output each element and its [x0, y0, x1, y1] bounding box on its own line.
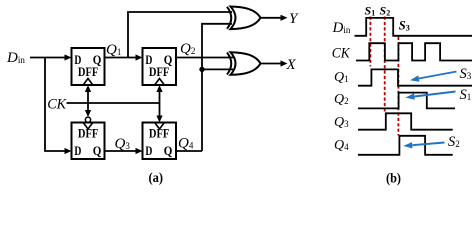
svg-text:DFF: DFF: [78, 65, 99, 79]
wire Din branch down to DFF3: [45, 58, 65, 152]
svg-text:CK: CK: [332, 46, 351, 62]
flip-flop DFF4 (bottom-right) box: [143, 123, 177, 160]
svg-text:Q: Q: [93, 143, 102, 158]
waveform Q2: [358, 93, 455, 109]
xor gate U1 (top): [227, 7, 261, 30]
svg-text:CK: CK: [47, 97, 67, 113]
clock wedge DFF1: [84, 79, 93, 85]
waveform Q4: [358, 136, 453, 155]
wire Q1 riser to top XOR: [128, 12, 232, 58]
inverter bubble DFF3 clock: [85, 117, 90, 122]
svg-text:D: D: [74, 143, 81, 158]
wire clock riser 1 down to DFF3 bubble: [87, 103, 89, 111]
wire Din to DFF1 D input: [30, 57, 65, 59]
clock wedge DFF2: [155, 79, 164, 85]
waveform Q1: [358, 69, 472, 85]
svg-text:X: X: [286, 57, 297, 73]
annotation arrow S1 blue: [414, 92, 455, 97]
wire CK horizontal: [67, 102, 160, 104]
wire clock riser 2 up to DFF2: [159, 90, 161, 103]
annotation arrow S2 blue: [412, 143, 444, 146]
wire Q2 to bottom XOR upper input: [176, 57, 233, 59]
flip-flop DFF1 (top-left) box: [72, 48, 105, 85]
waveform CK: [356, 43, 472, 60]
clock wedge DFF4: [155, 123, 164, 129]
wire clock riser 1 up to DFF1: [87, 90, 89, 103]
junction dot Q4/bottom XOR: [199, 67, 204, 72]
wire Q1 to DFF2: [105, 57, 137, 59]
wire XOR2 output to X: [261, 63, 281, 65]
flip-flop DFF2 (top-right) box: [143, 48, 177, 85]
svg-text:DFF: DFF: [149, 65, 170, 79]
waveform Din: [355, 18, 473, 36]
svg-text:(a): (a): [149, 171, 164, 186]
clock wedge DFF3: [84, 123, 93, 129]
xor gate U2 (bottom): [227, 52, 261, 75]
wire Q4 riser up to top XOR lower input: [202, 24, 232, 151]
wire junction to bottom XOR lower input: [202, 68, 233, 70]
svg-text:Q: Q: [164, 143, 173, 158]
annotation arrow S3 blue: [419, 72, 457, 79]
svg-text:(b): (b): [386, 172, 401, 187]
flip-flop DFF3 (bottom-left) box: [72, 123, 105, 160]
wire clock riser 2 down to DFF4: [159, 103, 161, 116]
svg-text:D: D: [145, 143, 152, 158]
waveform Q3: [358, 113, 453, 129]
marker dashed line S2: [384, 17, 386, 114]
marker dashed line S1: [369, 17, 371, 67]
wire Q4 output: [176, 150, 202, 152]
wire Q3 to DFF4: [105, 150, 137, 152]
wire XOR1 output to Y: [261, 17, 281, 19]
marker dashed line S3: [397, 37, 399, 136]
